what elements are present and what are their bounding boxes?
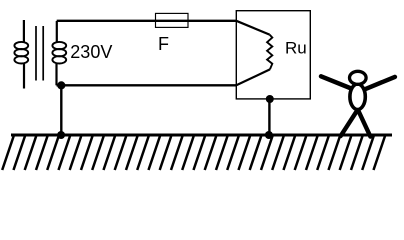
svg-text:Ru: Ru <box>285 39 307 58</box>
node at load box bottom <box>266 95 274 103</box>
node junction at transformer bottom <box>57 81 65 89</box>
ground line <box>11 133 392 136</box>
person left leg <box>341 110 358 137</box>
svg-text:F: F <box>158 34 169 54</box>
person left arm <box>321 76 350 88</box>
person right leg <box>358 110 371 137</box>
ground hatching <box>2 136 385 170</box>
load box outline <box>236 11 310 99</box>
wire: earth drop left <box>60 85 62 135</box>
transformer T1 core <box>36 26 43 81</box>
person right arm <box>366 77 395 89</box>
svg-text:230V: 230V <box>70 42 112 62</box>
person body <box>350 84 365 110</box>
wire: diagonal to resistor top <box>236 21 269 35</box>
transformer T1 primary winding <box>14 20 28 89</box>
wire: diagonal from resistor bottom <box>236 69 270 85</box>
transformer T1 secondary winding <box>52 21 66 85</box>
node at ground line right <box>265 131 273 139</box>
node at ground line left <box>57 131 65 139</box>
wire: earth drop right <box>268 99 270 135</box>
wire top: secondary top to fuse to load box <box>57 20 237 23</box>
wire bottom: secondary bottom to load box <box>57 84 237 86</box>
resistor Ru zigzag <box>267 35 272 70</box>
person head <box>350 71 367 84</box>
fuse F body <box>156 13 189 27</box>
